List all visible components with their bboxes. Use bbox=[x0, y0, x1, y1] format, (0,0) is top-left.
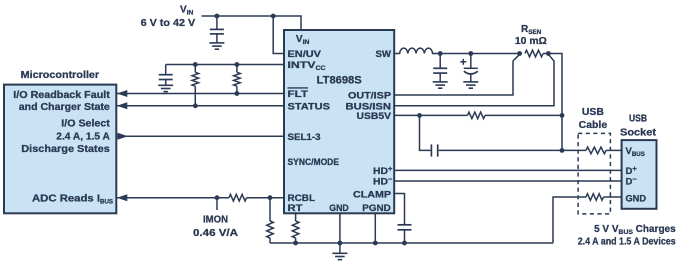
resistor R2 FLT pull-up bbox=[234, 65, 241, 94]
pin HD- bbox=[373, 175, 393, 188]
ground main bbox=[332, 243, 347, 260]
wire USB5V to R6 bbox=[420, 114, 468, 116]
svg-text:VIN: VIN bbox=[180, 4, 194, 16]
wire RSEN to VBUS bbox=[548, 54, 562, 151]
label Microcontroller bbox=[21, 70, 100, 81]
junction VBUS node bbox=[560, 148, 565, 153]
svg-text:STATUS: STATUS bbox=[288, 102, 331, 113]
junction USB5V-C6 bbox=[417, 113, 422, 118]
svg-text:SEL1-3: SEL1-3 bbox=[288, 132, 321, 143]
svg-text:GND: GND bbox=[329, 203, 349, 214]
junction GND-rail bbox=[338, 241, 343, 246]
wire C6 to VBUS bbox=[439, 149, 562, 151]
wire GND pin stub bbox=[339, 213, 341, 243]
svg-text:Cable: Cable bbox=[579, 120, 608, 131]
pin SW bbox=[376, 49, 392, 60]
junction RSEN right bbox=[546, 51, 551, 56]
svg-text:EN/UV: EN/UV bbox=[288, 49, 322, 60]
wire R3 to RCBL bbox=[247, 197, 285, 199]
pin RCBL bbox=[288, 193, 316, 204]
wire BUS/ISN kelvin bbox=[394, 54, 554, 106]
wire EN/UV bbox=[273, 16, 284, 54]
pin CLAMP bbox=[353, 190, 392, 201]
wire HD- / D- bbox=[394, 180, 621, 182]
label Discharge States bbox=[21, 144, 110, 155]
junction PGND-rail bbox=[373, 241, 378, 246]
capacitor C1 input bbox=[210, 16, 224, 43]
wire RSEN right lead bbox=[543, 53, 548, 55]
ground C3 bbox=[433, 82, 448, 88]
pin BUS/ISN bbox=[346, 102, 392, 113]
junction R5-rail bbox=[293, 241, 298, 246]
ground C2 bbox=[158, 85, 173, 91]
junction SW-C4 bbox=[468, 51, 473, 56]
junction RCBL-R4 bbox=[268, 195, 273, 200]
wire HD+ / D+ bbox=[394, 169, 621, 171]
junction VIN-EN/UV bbox=[271, 14, 276, 19]
resistor R5 RT bbox=[292, 213, 299, 243]
label 5V VBUS Charges bbox=[594, 224, 676, 236]
junction VIN-CIN bbox=[215, 14, 220, 19]
pin GND socket bbox=[626, 194, 647, 205]
pin USB5V bbox=[357, 111, 392, 122]
pin RT bbox=[288, 203, 303, 214]
svg-text:SYNC/MODE: SYNC/MODE bbox=[288, 157, 340, 168]
svg-text:I/O Select: I/O Select bbox=[61, 119, 110, 130]
net VIN input label bbox=[141, 4, 196, 29]
label and Charger State bbox=[19, 102, 110, 113]
label USB Cable bbox=[579, 107, 608, 131]
svg-text:0.46 V/A: 0.46 V/A bbox=[193, 228, 238, 239]
svg-text:IMON: IMON bbox=[203, 214, 228, 225]
svg-text:GND: GND bbox=[626, 194, 647, 205]
resistor RSEN bbox=[525, 50, 543, 57]
junction C5-rail bbox=[402, 241, 407, 246]
pin SEL1-3 bbox=[288, 132, 321, 143]
arrow FLT into MCU bbox=[117, 90, 128, 97]
svg-text:2.4 A and 1.5 A Devices: 2.4 A and 1.5 A Devices bbox=[578, 236, 676, 247]
svg-text:RSEN: RSEN bbox=[521, 24, 542, 36]
pin OUT/ISP bbox=[348, 91, 392, 102]
pin PGND bbox=[362, 203, 391, 214]
wire C6 branch bbox=[420, 115, 431, 150]
pin EN/UV bbox=[288, 49, 322, 60]
wire STATUS to MCU bbox=[116, 105, 284, 107]
capacitor C4 output polarized bbox=[460, 54, 478, 82]
pin SYNC/MODE bbox=[288, 157, 340, 168]
svg-text:PGND: PGND bbox=[362, 203, 391, 214]
capacitor C6 series bbox=[431, 144, 437, 156]
arrow SEL1-3 toward IC bbox=[118, 133, 129, 140]
wire OUT/ISP sense bbox=[284, 94, 394, 96]
usb cable box bbox=[578, 133, 610, 214]
junction R1-STATUS bbox=[193, 103, 198, 108]
wire to socket VBUS bbox=[606, 149, 622, 151]
capacitor C5 CLAMP bbox=[398, 225, 412, 243]
wire R6 to VBUS bbox=[485, 114, 562, 116]
arrow STATUS into MCU bbox=[117, 102, 128, 109]
svg-text:Socket: Socket bbox=[620, 128, 657, 139]
svg-text:I/O Readback Fault: I/O Readback Fault bbox=[13, 90, 110, 101]
capacitor C2 INTVCC bbox=[159, 65, 173, 86]
wire VBUS to cable bbox=[562, 149, 586, 151]
svg-text:5 V VBUS Charges: 5 V VBUS Charges bbox=[594, 224, 676, 236]
wire OUT/ISP kelvin bbox=[394, 54, 519, 95]
pin HD+ bbox=[373, 164, 393, 177]
pin STATUS bbox=[288, 102, 331, 113]
svg-text:USB: USB bbox=[582, 107, 604, 118]
junction INTVCC-R1 bbox=[193, 62, 198, 67]
microcontroller U2 bbox=[4, 85, 116, 214]
junction SW-C3 bbox=[438, 51, 443, 56]
pin INTVCC bbox=[288, 60, 326, 72]
svg-text:OUT/ISP: OUT/ISP bbox=[348, 91, 392, 102]
label USB Socket bbox=[620, 114, 657, 139]
label 2.4A and 1.5A Devices bbox=[578, 236, 676, 247]
junction RSEN left bbox=[517, 51, 522, 56]
pin D- socket bbox=[626, 175, 638, 188]
svg-text:2.4 A, 1.5 A: 2.4 A, 1.5 A bbox=[56, 131, 110, 142]
resistor R7 cable VBUS bbox=[586, 147, 606, 154]
label I/O Readback Fault bbox=[13, 90, 110, 101]
svg-text:and Charger State: and Charger State bbox=[19, 102, 110, 113]
label I/O Select bbox=[61, 119, 110, 130]
svg-text:6 V to 42 V: 6 V to 42 V bbox=[141, 18, 196, 29]
pin VIN bbox=[296, 34, 310, 46]
junction VBUS-USB5V bbox=[560, 113, 565, 118]
junction R2-FLT bbox=[235, 91, 240, 96]
wire FLT to MCU bbox=[116, 93, 284, 95]
pin D+ socket bbox=[626, 164, 638, 177]
wire USB5V bbox=[394, 114, 419, 116]
wire CLAMP bbox=[394, 194, 404, 225]
pin GND bbox=[329, 203, 349, 214]
op-amp U1 LT8698S bbox=[284, 30, 394, 213]
inductor L1 at SW bbox=[394, 48, 519, 53]
resistor R4 RCBL bbox=[267, 198, 274, 243]
label 2.4 A 1.5 A bbox=[56, 131, 110, 142]
svg-text:10 mΩ: 10 mΩ bbox=[515, 36, 547, 47]
svg-text:USB: USB bbox=[629, 114, 647, 125]
junction IMON node bbox=[215, 195, 220, 210]
arrow ADC into MCU bbox=[117, 194, 128, 201]
pin FLT bbox=[288, 88, 309, 100]
label LT8698S bbox=[317, 75, 362, 87]
wire rail to USB GND bbox=[553, 197, 586, 243]
capacitor C3 output bbox=[433, 54, 447, 82]
label ADC Reads IBUS bbox=[32, 194, 113, 206]
svg-text:RT: RT bbox=[288, 203, 303, 214]
svg-text:Discharge States: Discharge States bbox=[21, 144, 110, 155]
resistor R1 STATUS pull-up bbox=[192, 65, 199, 106]
svg-text:USB5V: USB5V bbox=[357, 111, 392, 122]
pin VBUS socket bbox=[626, 146, 646, 158]
wire IMON to MCU bbox=[116, 197, 229, 199]
wire PGND pin stub bbox=[374, 213, 376, 243]
junction INTVCC-R2 bbox=[235, 62, 240, 67]
svg-text:SW: SW bbox=[376, 49, 392, 60]
svg-text:LT8698S: LT8698S bbox=[317, 75, 362, 87]
wire VIN to IC top bbox=[202, 16, 302, 30]
ground C4 bbox=[463, 82, 478, 88]
svg-text:Microcontroller: Microcontroller bbox=[21, 70, 100, 81]
label IMON 0.46 V/A bbox=[193, 214, 238, 239]
resistor R8 cable GND bbox=[586, 194, 604, 201]
wire ground rail bbox=[270, 242, 553, 244]
wire to socket GND bbox=[604, 196, 622, 198]
ground C1 bbox=[209, 43, 224, 49]
wire SEL1-3 from MCU bbox=[116, 135, 284, 137]
usb socket J1 bbox=[622, 140, 657, 209]
svg-text:CLAMP: CLAMP bbox=[353, 190, 392, 201]
svg-text:FLT: FLT bbox=[288, 89, 309, 100]
label RSEN 10 mOhm bbox=[515, 24, 547, 47]
resistor R3 IMON bbox=[229, 194, 247, 201]
wire INTVCC bbox=[166, 64, 284, 66]
resistor R6 USB5V bbox=[468, 112, 486, 119]
